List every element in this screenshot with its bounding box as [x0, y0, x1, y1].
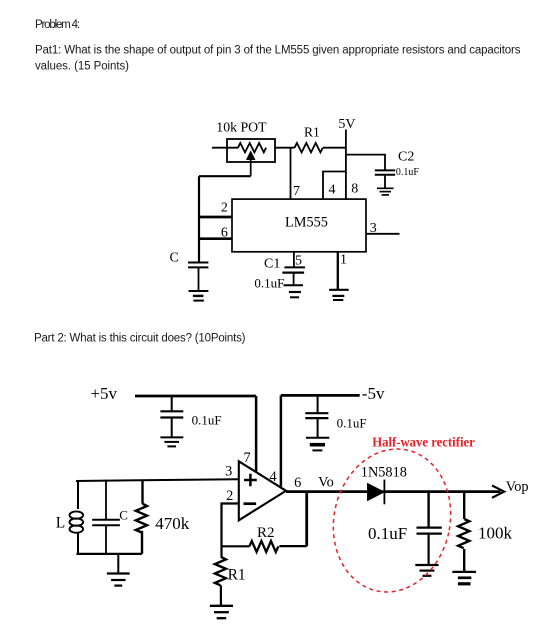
svg-text:Pat1: What is the shape of out: Pat1: What is the shape of output of pin…: [35, 44, 521, 56]
svg-text:5V: 5V: [338, 117, 355, 132]
svg-text:Vop: Vop: [506, 479, 529, 495]
svg-text:4: 4: [329, 183, 336, 198]
svg-text:+5v: +5v: [90, 384, 117, 403]
svg-text:0.1uF: 0.1uF: [337, 416, 367, 431]
svg-text:L: L: [56, 515, 65, 532]
svg-text:6: 6: [221, 226, 228, 241]
svg-text:C: C: [119, 508, 128, 523]
svg-text:5: 5: [295, 254, 302, 269]
svg-text:7: 7: [293, 184, 300, 199]
svg-text:6: 6: [294, 475, 301, 491]
svg-text:1N5818: 1N5818: [361, 464, 407, 480]
svg-text:R2: R2: [257, 525, 275, 541]
svg-text:3: 3: [225, 463, 232, 479]
svg-text:LM555: LM555: [285, 215, 328, 231]
svg-text:Problem 4:: Problem 4:: [35, 19, 80, 31]
svg-text:0.1uF: 0.1uF: [368, 524, 407, 543]
svg-text:2: 2: [226, 488, 233, 504]
svg-text:2: 2: [221, 201, 228, 216]
svg-text:C1: C1: [264, 257, 280, 272]
svg-text:values. (15 Points): values. (15 Points): [35, 61, 129, 73]
svg-text:C2: C2: [398, 150, 414, 165]
svg-text:10k POT: 10k POT: [216, 120, 267, 135]
svg-text:470k: 470k: [155, 514, 190, 533]
svg-text:3: 3: [370, 221, 377, 236]
svg-text:Part 2: What is this circuit d: Part 2: What is this circuit does? (10Po…: [34, 332, 246, 344]
svg-text:8: 8: [351, 182, 358, 197]
svg-text:7: 7: [244, 450, 251, 466]
svg-text:R1: R1: [304, 125, 320, 140]
svg-text:R1: R1: [228, 566, 246, 583]
svg-text:Half-wave rectifier: Half-wave rectifier: [372, 435, 475, 450]
svg-text:100k: 100k: [478, 523, 513, 542]
svg-text:1: 1: [340, 253, 347, 268]
svg-text:-5v: -5v: [362, 384, 385, 403]
svg-text:0.1uF: 0.1uF: [254, 275, 284, 290]
svg-text:0.1uF: 0.1uF: [396, 166, 419, 178]
svg-text:0.1uF: 0.1uF: [192, 413, 222, 428]
svg-text:C: C: [170, 251, 179, 266]
svg-text:Vo: Vo: [318, 475, 334, 491]
svg-text:4: 4: [270, 469, 277, 485]
